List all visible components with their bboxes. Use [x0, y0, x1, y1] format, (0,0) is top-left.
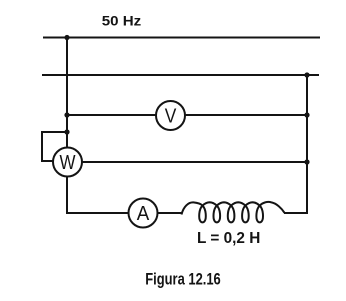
junction voltmeter branch [64, 112, 69, 117]
svg-text:50 Hz: 50 Hz [102, 13, 142, 29]
svg-text:V: V [165, 106, 177, 128]
wire right vertical [306, 75, 308, 213]
wire voltmeter row right segment [185, 114, 307, 116]
wire bottom row to ammeter [66, 212, 129, 214]
wire wattmeter voltage-coil bracket [42, 132, 67, 161]
junction on line 2 [304, 72, 309, 77]
ammeter A [129, 199, 158, 228]
svg-text:L = 0,2 H: L = 0,2 H [197, 230, 260, 247]
junction wattmeter voltage-coil branch [64, 129, 69, 134]
wire ammeter to inductor [158, 212, 183, 214]
svg-text:A: A [137, 203, 150, 225]
svg-text:Figura 12.16: Figura 12.16 [145, 271, 221, 289]
junction on line 1 [64, 35, 69, 40]
junction wattmeter row / right vertical [304, 159, 309, 164]
wire inductor to right corner [284, 212, 308, 214]
wire supply line 1 (top) [43, 37, 320, 39]
wire wattmeter bottom lead [66, 177, 68, 215]
wire voltmeter row left segment [67, 114, 156, 116]
junction voltmeter row / right vertical [304, 112, 309, 117]
wire left vertical feeder [66, 38, 68, 149]
inductor L coil loops [182, 202, 285, 222]
wire supply line 2 [42, 74, 319, 76]
voltmeter V [156, 101, 185, 130]
wire wattmeter row [82, 161, 307, 163]
wattmeter W [53, 148, 82, 177]
svg-text:W: W [60, 152, 76, 174]
